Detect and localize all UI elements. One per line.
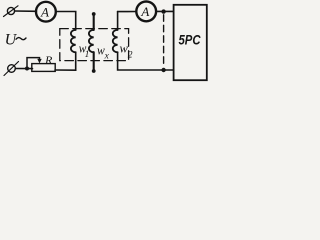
box 5PC [174, 5, 207, 80]
svg-text:U: U [5, 32, 18, 49]
wire resistor to terminal bottom-left [15, 68, 32, 70]
winding wx top terminal dot [92, 12, 96, 16]
junction dot at tap [25, 67, 29, 71]
wire terminal to A1 [15, 10, 37, 12]
terminal top-left [4, 6, 19, 17]
wire A2 to box 5PC [156, 10, 173, 12]
svg-text:1: 1 [85, 50, 90, 60]
wire w2 top to A2 [118, 11, 137, 13]
dashed link wire [163, 15, 165, 67]
winding wx bottom terminal dot [92, 69, 96, 73]
wire w2 bottom to box 5PC [118, 52, 174, 70]
winding w1 [71, 30, 76, 53]
svg-text:x: x [104, 51, 110, 61]
winding w2 top lead [117, 12, 119, 30]
winding wx [89, 30, 94, 53]
winding w2 [113, 30, 118, 53]
screen (dashed box around windings) [60, 29, 129, 61]
rheostat tap wire [27, 58, 40, 69]
wire A1 to w1 top corner [56, 12, 75, 31]
ammeter A2 [136, 2, 156, 22]
svg-text:A: A [140, 4, 149, 19]
ammeter A1 [36, 2, 56, 22]
winding wx bottom lead [93, 52, 95, 71]
svg-text:2: 2 [128, 50, 133, 60]
svg-text:5РС: 5РС [179, 32, 201, 47]
winding wx top lead [93, 14, 95, 30]
svg-text:A: A [40, 4, 49, 19]
junction dot bottom [161, 68, 165, 72]
wire w1 bottom to resistor [55, 52, 76, 70]
resistor R (rheostat) [32, 64, 55, 72]
rheostat tap arrowhead [37, 59, 41, 64]
terminal bottom-left [4, 62, 19, 76]
junction dot top [161, 9, 165, 13]
svg-text:R: R [44, 53, 53, 67]
